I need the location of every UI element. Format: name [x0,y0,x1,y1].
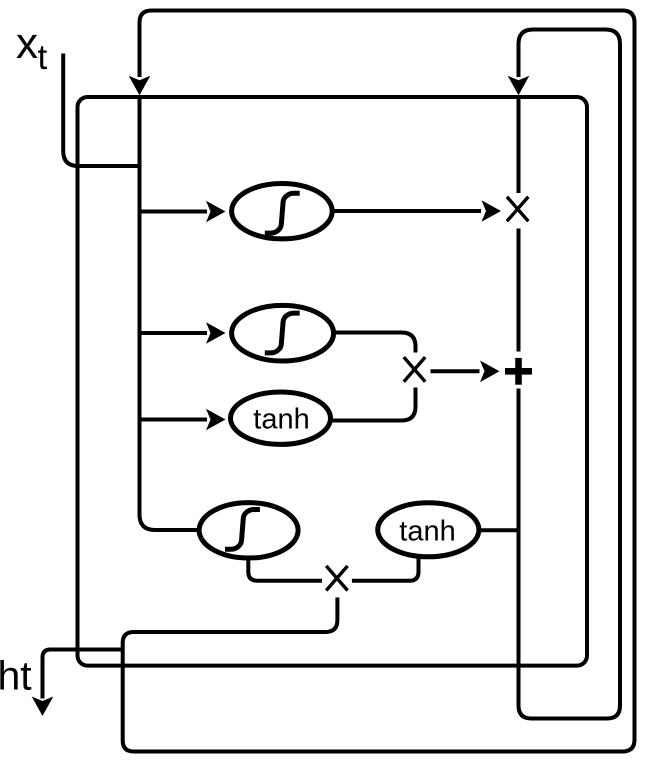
svg-text:tanh: tanh [253,403,309,435]
svg-text:t: t [38,38,48,77]
svg-text:x: x [16,19,38,68]
svg-text:ht: ht [0,653,32,699]
svg-text:tanh: tanh [399,515,455,547]
